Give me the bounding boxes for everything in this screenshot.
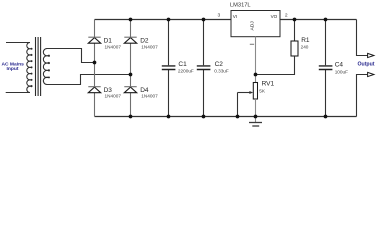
- node junction mid: [93, 61, 97, 65]
- diode D3: [88, 87, 100, 93]
- resistor R1: [291, 41, 298, 56]
- wire R1 column top: [294, 20, 296, 42]
- svg-text:ADJ: ADJ: [250, 21, 256, 31]
- wire ADJ node to RV1 top: [255, 75, 257, 83]
- wire D2/D4 column: [130, 20, 132, 117]
- ground: [249, 117, 262, 127]
- transformer TR primary winding: [27, 43, 32, 93]
- svg-text:C2: C2: [215, 61, 224, 68]
- wire C2 column: [203, 20, 205, 117]
- wire D1/D3 column: [94, 20, 96, 117]
- op-amp regulator U1 LM317L box: [231, 11, 280, 37]
- wiper arrow RV1: [238, 92, 251, 94]
- pin number 1 (rotated): [250, 43, 254, 46]
- node junction dots top rail: [129, 18, 133, 22]
- svg-text:1N4007: 1N4007: [105, 44, 122, 49]
- wire output negative drop: [357, 75, 368, 117]
- transformer TR primary top lead: [6, 42, 30, 44]
- diode D4: [124, 87, 136, 93]
- diode D2: [124, 37, 136, 43]
- svg-text:3: 3: [218, 12, 221, 18]
- transformer core: [36, 37, 41, 96]
- wire R1 bottom to ADJ node: [256, 56, 295, 75]
- svg-text:100uF: 100uF: [335, 69, 348, 74]
- wire output positive drop: [357, 20, 368, 56]
- wire C1 column: [168, 20, 170, 117]
- terminal output negative arrow: [368, 72, 374, 76]
- capacitor C2: [197, 66, 211, 70]
- terminal output positive arrow: [368, 53, 374, 57]
- svg-text:1N4007: 1N4007: [141, 94, 158, 99]
- capacitor C4: [319, 66, 333, 70]
- transformer TR secondary winding: [43, 49, 49, 85]
- svg-text:VI: VI: [233, 14, 237, 19]
- capacitor C1: [162, 66, 176, 70]
- wire top rail: [95, 19, 357, 21]
- svg-text:1N4007: 1N4007: [141, 44, 158, 49]
- wire wiper down to bottom rail: [237, 93, 239, 117]
- svg-text:5K: 5K: [259, 88, 266, 93]
- wire bottom rail: [95, 116, 357, 118]
- svg-text:LM317L: LM317L: [230, 2, 251, 8]
- svg-text:2: 2: [285, 12, 288, 18]
- svg-text:1N4007: 1N4007: [105, 94, 122, 99]
- diode D1: [88, 37, 100, 43]
- svg-text:RV1: RV1: [262, 81, 275, 88]
- node junction dots bottom rail: [129, 115, 133, 119]
- svg-text:VO: VO: [271, 14, 278, 19]
- svg-text:Input: Input: [7, 66, 19, 72]
- svg-text:Output: Output: [358, 61, 375, 67]
- svg-text:0.33uF: 0.33uF: [214, 69, 229, 74]
- wire RV1 bottom to rail: [255, 99, 257, 117]
- svg-text:R1: R1: [301, 37, 310, 44]
- potentiometer RV1 body: [253, 83, 257, 100]
- svg-text:240: 240: [301, 44, 309, 49]
- pin wire ADJ: [255, 37, 257, 75]
- wire secondary bottom lead to bridge: [47, 75, 131, 85]
- wire C4 column: [325, 20, 327, 117]
- svg-text:2200uF: 2200uF: [178, 69, 194, 74]
- wire secondary top lead to bridge: [47, 49, 95, 63]
- transformer TR primary bottom lead: [6, 92, 30, 94]
- svg-text:C1: C1: [178, 61, 187, 68]
- svg-text:C4: C4: [335, 61, 344, 68]
